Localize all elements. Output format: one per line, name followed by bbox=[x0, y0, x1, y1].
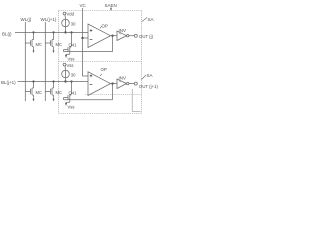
svg-text:MC: MC bbox=[56, 42, 63, 47]
svg-text:MC: MC bbox=[36, 42, 43, 47]
word line WL(j) bbox=[24, 22, 26, 101]
inverter2 leader bbox=[119, 81, 122, 82]
current source 30 row2 bbox=[62, 63, 70, 81]
svg-text:Q41: Q41 bbox=[69, 91, 78, 96]
inverter INV row2 bbox=[117, 79, 137, 89]
svg-text:OP: OP bbox=[102, 24, 108, 29]
svg-text:MC: MC bbox=[36, 90, 43, 95]
text labels bbox=[1, 3, 158, 109]
svg-text:SA: SA bbox=[148, 17, 154, 22]
svg-text:BL(j+1): BL(j+1) bbox=[1, 80, 16, 85]
svg-text:SAEN: SAEN bbox=[105, 3, 117, 8]
op-amp1 leader bbox=[100, 26, 102, 28]
arrow below MC r2c2 bbox=[53, 97, 55, 101]
inverter1 leader bbox=[119, 33, 122, 34]
arrow below MC r1c2 bbox=[53, 49, 55, 53]
svg-text:OUT (j): OUT (j) bbox=[139, 34, 154, 39]
svg-text:BL(j): BL(j) bbox=[2, 31, 12, 36]
svg-text:Vss: Vss bbox=[68, 104, 75, 109]
VC reference line bbox=[82, 8, 84, 76]
svg-text:OUT (j+1): OUT (j+1) bbox=[139, 84, 158, 89]
op-amp input polarity marks bbox=[90, 29, 93, 84]
junction dots bbox=[32, 31, 113, 85]
op-amp2 leader bbox=[100, 74, 102, 76]
svg-text:Vdd: Vdd bbox=[67, 12, 75, 17]
SA leader row2 bbox=[142, 75, 147, 80]
svg-text:WL(j): WL(j) bbox=[21, 17, 32, 22]
svg-text:30: 30 bbox=[71, 72, 76, 77]
svg-text:MC: MC bbox=[56, 90, 63, 95]
svg-text:INV: INV bbox=[119, 28, 127, 33]
svg-text:Q41: Q41 bbox=[69, 43, 78, 48]
clamp transistor Q41 row1 bbox=[64, 32, 72, 55]
feedback wire row2 bbox=[64, 84, 113, 100]
Vss arrow row1 bbox=[65, 55, 67, 58]
feedback wire row1 bbox=[64, 36, 113, 52]
memory cell MC row1 col1 bbox=[25, 32, 33, 49]
inverter INV row1 bbox=[117, 31, 137, 41]
bit line BL(j) bbox=[15, 31, 88, 33]
svg-text:Vss: Vss bbox=[67, 63, 74, 68]
current source 30 row1 bbox=[62, 12, 70, 32]
SAEN arrow bbox=[110, 7, 112, 10]
bit line BL(j+1) bbox=[18, 81, 89, 83]
svg-text:WL(j+1): WL(j+1) bbox=[41, 17, 57, 22]
memory cell MC row2 col1 bbox=[25, 82, 33, 98]
word line WL(j+1) bbox=[44, 22, 46, 101]
memory cell MC row2 col2 bbox=[45, 82, 53, 98]
arrow below MC r2c1 bbox=[33, 97, 35, 101]
small corner outline bottom right bbox=[132, 89, 140, 112]
svg-text:30: 30 bbox=[71, 21, 76, 26]
svg-text:Vss: Vss bbox=[68, 56, 75, 61]
op-amp OP row1 bbox=[88, 24, 117, 48]
memory cell MC row1 col2 bbox=[45, 32, 53, 49]
arrow below MC r1c1 bbox=[33, 49, 35, 53]
op-amp OP row2 bbox=[88, 72, 117, 96]
svg-text:VC: VC bbox=[80, 3, 87, 8]
SA block 1 dashed box bbox=[59, 11, 142, 114]
svg-text:OP: OP bbox=[101, 67, 107, 72]
Vss arrow row2 bbox=[65, 103, 67, 106]
svg-text:SA: SA bbox=[147, 73, 153, 78]
clamp transistor Q41 row2 bbox=[64, 82, 72, 104]
SA leader row1 bbox=[142, 18, 147, 22]
svg-text:INV: INV bbox=[119, 76, 127, 81]
